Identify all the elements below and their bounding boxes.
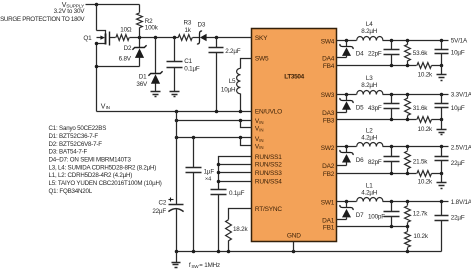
svg-text:C2: C2 xyxy=(159,200,167,207)
svg-text:4.2µH: 4.2µH xyxy=(361,135,378,142)
svg-text:D5: D5 xyxy=(356,104,364,111)
svg-text:IN: IN xyxy=(259,128,263,133)
svg-text:22µF: 22µF xyxy=(451,160,465,167)
svg-text:3.2V to 30V: 3.2V to 30V xyxy=(54,8,86,15)
svg-text:5V/1A: 5V/1A xyxy=(451,38,468,45)
svg-text:DA3: DA3 xyxy=(322,110,335,117)
svg-text:82pF: 82pF xyxy=(368,159,382,166)
svg-text:22µF: 22µF xyxy=(451,215,465,222)
svg-text:D3: D3 xyxy=(197,21,205,28)
svg-text:100pF: 100pF xyxy=(368,213,385,220)
svg-text:2.2µF: 2.2µF xyxy=(225,48,241,55)
svg-text:FB3: FB3 xyxy=(323,118,335,125)
svg-text:100k: 100k xyxy=(145,24,159,31)
svg-text:IN: IN xyxy=(106,105,110,110)
svg-text:SW3: SW3 xyxy=(321,92,335,99)
svg-text:31.6k: 31.6k xyxy=(413,105,428,112)
svg-text:L1, L2: CDRH5D28-4R2 (4.2µH): L1, L2: CDRH5D28-4R2 (4.2µH) xyxy=(49,172,133,179)
svg-text:3.3V/1A: 3.3V/1A xyxy=(451,91,471,98)
svg-text:C1: Sanyo 50CE22BS: C1: Sanyo 50CE22BS xyxy=(49,125,107,132)
svg-text:0.1µF: 0.1µF xyxy=(229,190,245,197)
svg-text:D7: D7 xyxy=(356,212,364,219)
svg-text:D2: D2 xyxy=(124,45,132,52)
svg-text:SW1: SW1 xyxy=(321,200,335,207)
svg-text:1MHz: 1MHz xyxy=(204,262,220,269)
svg-text:8.2µH: 8.2µH xyxy=(361,28,378,35)
svg-text:1k: 1k xyxy=(185,27,192,34)
svg-text:L5: L5 xyxy=(229,78,236,85)
svg-text:L3: L3 xyxy=(366,75,373,82)
svg-text:Q1: FQB34N20L: Q1: FQB34N20L xyxy=(49,188,93,195)
svg-text:IN: IN xyxy=(259,120,263,125)
svg-text:L5: TAIYO YUDEN CBC2016T100M (: L5: TAIYO YUDEN CBC2016T100M (10µH) xyxy=(49,180,162,187)
svg-text:IN: IN xyxy=(259,138,263,143)
svg-text:C1: C1 xyxy=(184,58,192,65)
svg-text:SURGE PROTECTION TO 180V: SURGE PROTECTION TO 180V xyxy=(0,16,85,23)
svg-text:21.5k: 21.5k xyxy=(413,158,428,165)
svg-text:RUN/SS1: RUN/SS1 xyxy=(255,154,282,161)
svg-text:SW2: SW2 xyxy=(321,145,335,152)
svg-text:EN/UVLO: EN/UVLO xyxy=(255,109,282,116)
svg-text:8.2µH: 8.2µH xyxy=(361,82,378,89)
svg-text:RT/SYNC: RT/SYNC xyxy=(255,206,283,213)
svg-text:FB2: FB2 xyxy=(323,171,335,178)
svg-text:D3: BAT54-7-F: D3: BAT54-7-F xyxy=(49,149,88,156)
svg-text:R3: R3 xyxy=(184,19,192,26)
svg-text:10µF: 10µF xyxy=(451,49,465,56)
svg-text:10.2k: 10.2k xyxy=(418,126,433,133)
svg-text:L4: L4 xyxy=(366,21,373,28)
svg-text:L2: L2 xyxy=(366,128,373,135)
svg-text:10.2k: 10.2k xyxy=(418,71,433,78)
svg-text:D1: D1 xyxy=(139,73,147,80)
svg-text:RUN/SS4: RUN/SS4 xyxy=(255,179,282,186)
svg-text:53.6k: 53.6k xyxy=(413,50,428,57)
svg-text:IN: IN xyxy=(259,145,263,150)
svg-text:FB4: FB4 xyxy=(323,63,335,70)
svg-text:D4–D7: ON SEMI MBRM140T3: D4–D7: ON SEMI MBRM140T3 xyxy=(49,157,132,164)
svg-text:36V: 36V xyxy=(136,81,148,88)
svg-text:D6: D6 xyxy=(356,157,364,164)
svg-text:SW5: SW5 xyxy=(255,56,269,63)
svg-text:SKY: SKY xyxy=(255,35,268,42)
svg-text:GND: GND xyxy=(287,233,301,240)
svg-text:SW4: SW4 xyxy=(321,38,335,45)
svg-text:1µF: 1µF xyxy=(204,168,215,175)
svg-text:LT3504: LT3504 xyxy=(284,73,304,80)
svg-text:RUN/SS3: RUN/SS3 xyxy=(255,170,282,177)
svg-text:0.1µF: 0.1µF xyxy=(184,66,200,73)
svg-text:L3, L4: SUMIDA CDRH5D28-8R2 (8: L3, L4: SUMIDA CDRH5D28-8R2 (8.2µH) xyxy=(49,164,157,171)
svg-text:D4: D4 xyxy=(356,51,364,58)
svg-text:22pF: 22pF xyxy=(368,50,382,57)
svg-text:1.8V/1A: 1.8V/1A xyxy=(451,199,471,206)
svg-text:43pF: 43pF xyxy=(368,105,382,112)
svg-text:4.2µH: 4.2µH xyxy=(361,190,378,197)
svg-text:DA2: DA2 xyxy=(322,163,335,170)
svg-text:18.2k: 18.2k xyxy=(233,226,248,233)
svg-text:10.2k: 10.2k xyxy=(413,233,428,240)
svg-text:L1: L1 xyxy=(366,183,373,190)
svg-text:12.7k: 12.7k xyxy=(413,210,428,217)
svg-text:6.8V: 6.8V xyxy=(119,55,132,62)
svg-text:FB1: FB1 xyxy=(323,224,335,231)
svg-text:10µH: 10µH xyxy=(221,86,236,93)
svg-text:2.5V/1A: 2.5V/1A xyxy=(451,144,471,151)
svg-text:10µF: 10µF xyxy=(451,105,465,112)
svg-text:DA4: DA4 xyxy=(322,56,335,63)
svg-text:10.2k: 10.2k xyxy=(418,178,433,185)
svg-text:Q1: Q1 xyxy=(83,35,92,42)
svg-text:22µF: 22µF xyxy=(152,208,166,215)
svg-text:10Ω: 10Ω xyxy=(120,27,132,34)
svg-text:SW: SW xyxy=(191,264,199,269)
svg-text:×4: ×4 xyxy=(205,176,212,182)
svg-text:D1: BZT52C36-7-F: D1: BZT52C36-7-F xyxy=(49,133,99,140)
svg-text:RUN/SS2: RUN/SS2 xyxy=(255,162,282,169)
svg-text:D2: BZT52C6V8-7-F: D2: BZT52C6V8-7-F xyxy=(49,141,103,148)
